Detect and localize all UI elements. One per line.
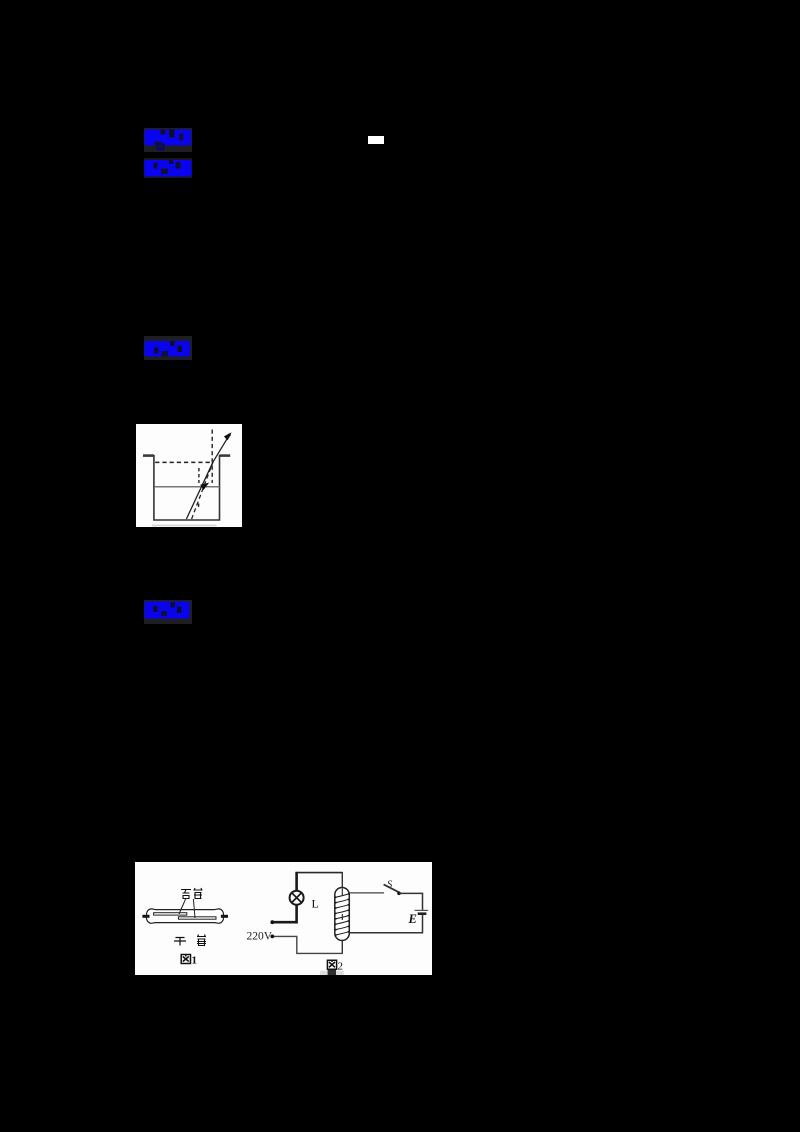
leader line left [179, 899, 186, 914]
incident ray (solid, under water) [186, 462, 213, 519]
circuit: top wire [297, 872, 343, 874]
arrowhead of refracted ray [224, 432, 232, 440]
coil branch verticals [341, 872, 343, 889]
tank walls and bottom [154, 455, 220, 520]
top tap wire [349, 892, 384, 894]
svg-text:1: 1 [192, 955, 198, 967]
reed switch: right lead wire [221, 915, 228, 918]
figure: refraction in water tank [136, 424, 242, 527]
battery lower wire and bottom tap [349, 915, 422, 933]
grey bar under fig2 caption [320, 971, 344, 975]
label sheHuang char1 [181, 890, 191, 899]
upper reed blade [154, 913, 187, 915]
tank left flange [143, 454, 154, 457]
caption tu2: box glyph [327, 960, 336, 969]
lower terminal wire [272, 936, 342, 953]
dashed original water level [155, 461, 212, 463]
lamp L [290, 891, 304, 905]
caption tu1: box glyph [181, 955, 190, 964]
label sheHuang char2 [194, 888, 203, 899]
white answer blank [368, 136, 384, 144]
svg-text:2: 2 [338, 961, 344, 973]
bottom shadow [152, 525, 217, 527]
dark square under fig2 caption [328, 969, 336, 975]
tank right flange [220, 454, 231, 457]
coil inner wire stub [341, 889, 343, 921]
arrowhead at water surface [200, 483, 209, 491]
switch contact dot [397, 892, 401, 896]
wire from switch to battery [399, 893, 423, 910]
figure: reed switch and control circuit [135, 862, 432, 975]
lower terminal dot [270, 935, 274, 939]
circuit: lamp branch upper [295, 872, 298, 891]
lamp branch lower [272, 904, 296, 922]
solid water surface [155, 486, 220, 488]
label block 2 (blue heading) [144, 158, 192, 178]
reed switch: glass tube [146, 909, 223, 923]
coil body [335, 888, 350, 941]
svg-text:220V: 220V [247, 931, 273, 943]
lower reed blade [178, 917, 216, 919]
label block 1 (blue heading) [144, 128, 192, 152]
svg-text:E: E [408, 912, 417, 926]
upper terminal dot [270, 920, 274, 924]
vertical dashed normal at dashed level [211, 430, 213, 484]
coil edge dots [335, 893, 349, 936]
battery long plate [415, 909, 429, 911]
dashed ray (apparent) [192, 462, 214, 519]
label gan char [174, 938, 186, 946]
svg-text:S: S [387, 880, 393, 891]
switch S lever [384, 884, 399, 892]
short dashed normal at solid surface [198, 468, 200, 483]
label block 4 (blue heading) [144, 600, 192, 624]
svg-text:L: L [312, 897, 319, 911]
leader line right [193, 899, 195, 918]
label block 3 (blue heading) [144, 336, 192, 360]
label huang char [197, 935, 206, 946]
battery short plate [418, 912, 427, 915]
coil turns [336, 894, 349, 935]
refracted ray (solid, above) [213, 438, 228, 462]
reed switch: left lead wire [142, 915, 149, 918]
